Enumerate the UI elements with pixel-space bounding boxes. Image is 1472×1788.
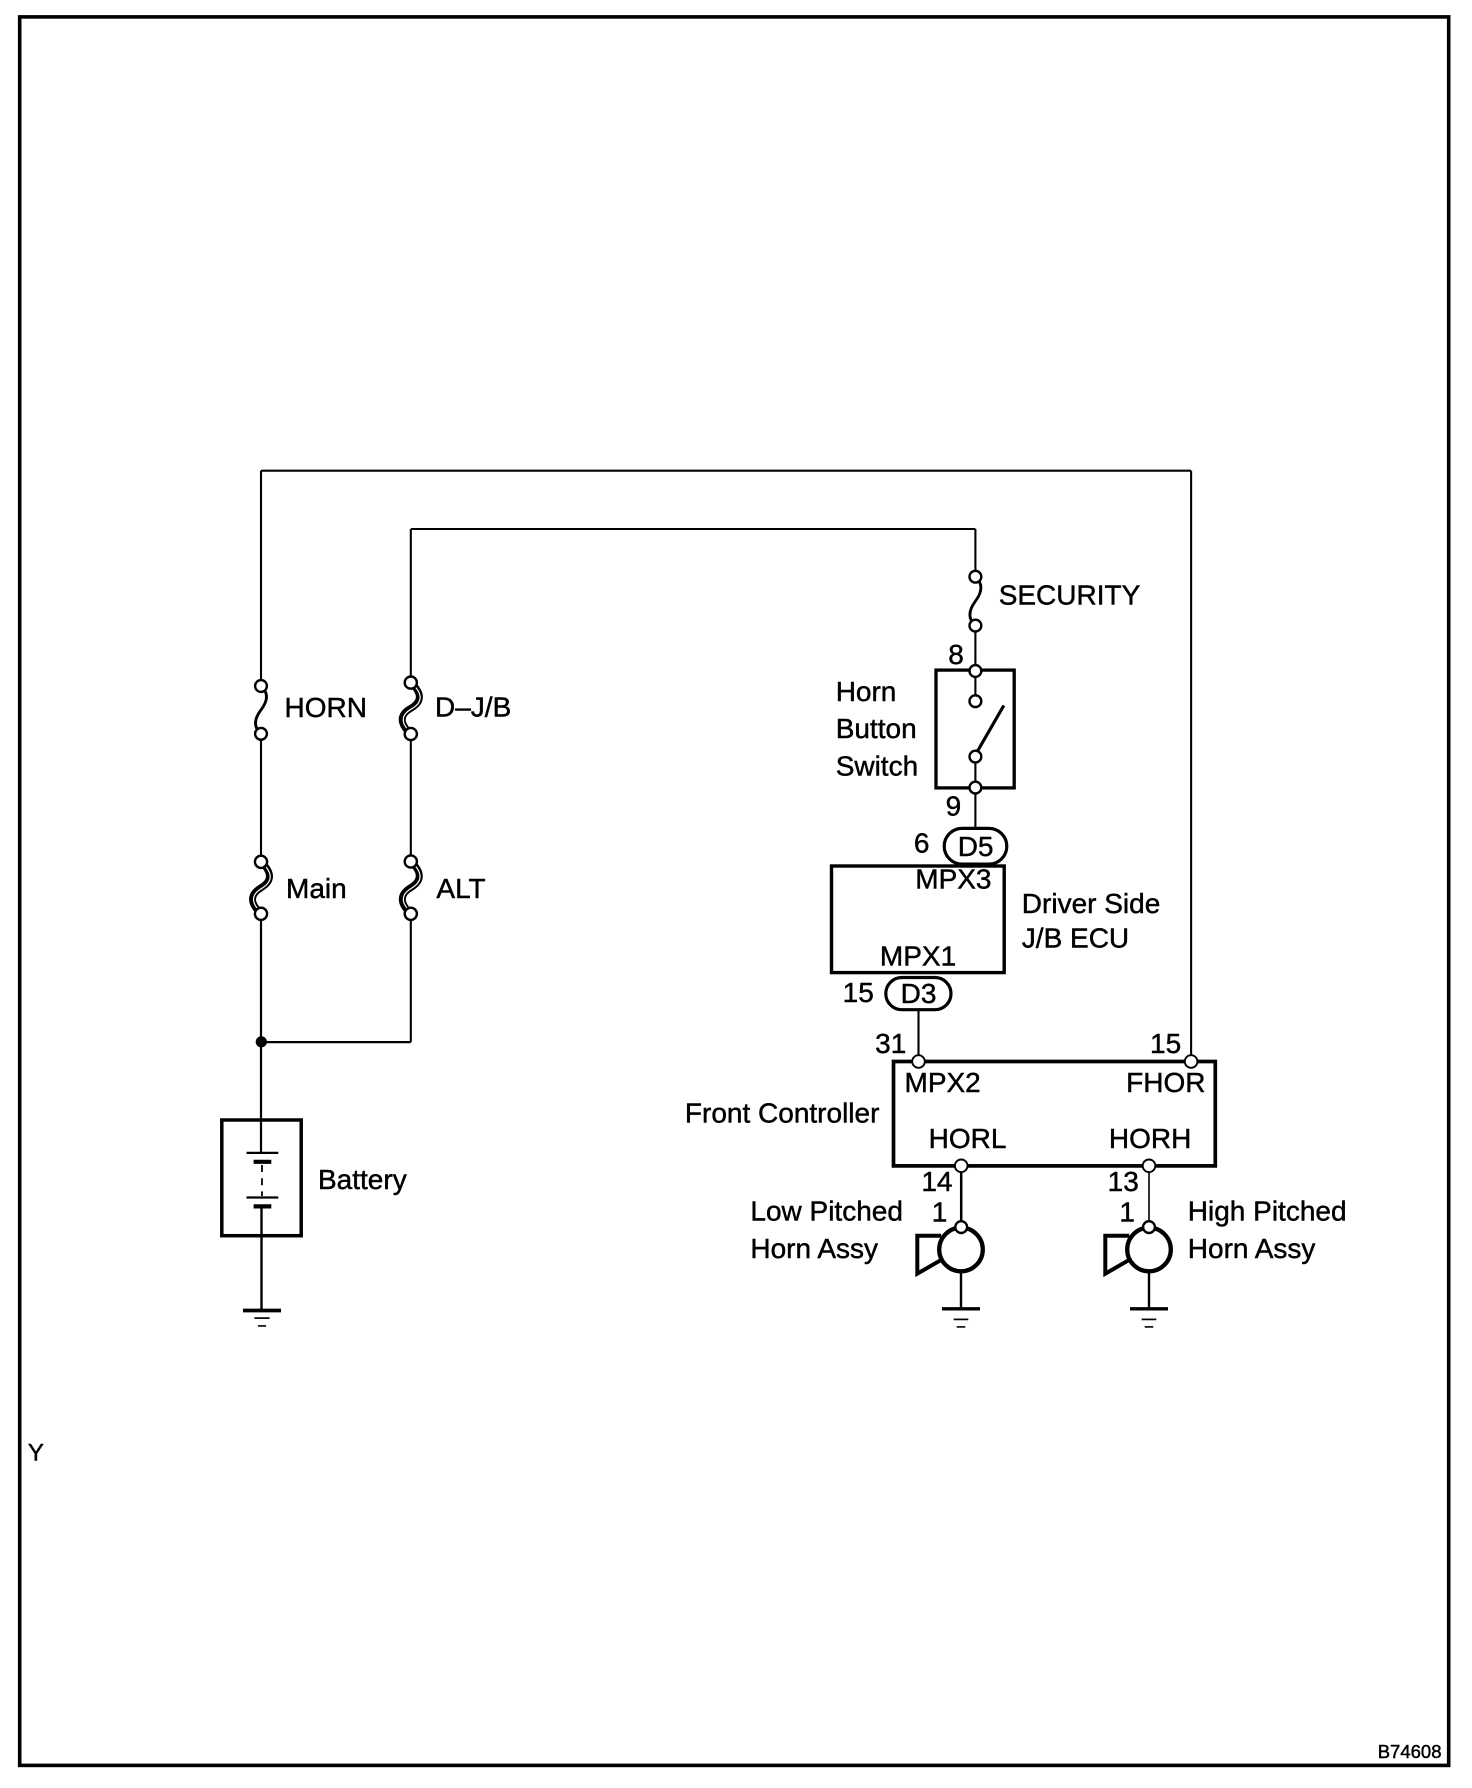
svg-text:SECURITY: SECURITY — [999, 580, 1141, 611]
svg-text:FHOR: FHOR — [1126, 1067, 1205, 1098]
wire security drop — [974, 529, 976, 577]
svg-text:Main: Main — [286, 873, 347, 904]
battery box — [222, 1120, 301, 1236]
pin 31 circle — [912, 1055, 925, 1068]
wire security to pin 8 — [974, 626, 976, 671]
svg-text:Horn Assy: Horn Assy — [1188, 1233, 1316, 1264]
wire junction branch horizontal — [261, 1041, 411, 1043]
svg-text:J/B ECU: J/B ECU — [1022, 923, 1129, 954]
svg-text:MPX3: MPX3 — [915, 864, 991, 895]
svg-text:HORH: HORH — [1109, 1123, 1191, 1154]
svg-text:6: 6 — [914, 827, 930, 858]
switch inner contact bottom — [970, 751, 982, 763]
wire second bus — [411, 528, 976, 530]
wire D3 to pin 31 — [917, 1009, 919, 1062]
wire left rail lower to battery — [260, 914, 262, 1153]
svg-text:D3: D3 — [901, 978, 937, 1009]
wire second bus riser — [410, 529, 412, 683]
Horn Button Switch box — [936, 670, 1014, 788]
svg-text:HORL: HORL — [929, 1123, 1007, 1154]
wire left rail middle — [260, 734, 262, 862]
svg-text:D5: D5 — [958, 831, 994, 862]
svg-text:1: 1 — [1119, 1196, 1135, 1227]
svg-text:31: 31 — [875, 1028, 906, 1059]
svg-text:Front Controller: Front Controller — [685, 1098, 880, 1129]
svg-text:8: 8 — [948, 639, 964, 670]
low pitched horn assy — [917, 1221, 983, 1274]
pin 14 HORL circle — [955, 1160, 968, 1173]
svg-text:Button: Button — [836, 713, 917, 744]
switch pin 9 circle — [970, 782, 982, 794]
connector D3 — [886, 978, 951, 1010]
fusible link D-J/B — [402, 677, 420, 741]
wire D-J/B to ALT — [410, 734, 412, 862]
svg-text:MPX2: MPX2 — [905, 1067, 981, 1098]
fuse HORN — [255, 680, 267, 740]
junction node — [256, 1036, 267, 1047]
svg-text:Y: Y — [28, 1440, 44, 1467]
svg-text:9: 9 — [946, 791, 962, 822]
wire pin 9 to D5 — [974, 788, 976, 830]
svg-text:B74608: B74608 — [1378, 1741, 1442, 1762]
svg-text:High Pitched: High Pitched — [1188, 1196, 1347, 1227]
Front Controller box — [894, 1062, 1216, 1166]
svg-text:ALT: ALT — [436, 873, 485, 904]
switch inner contact top — [970, 695, 982, 707]
battery ground — [243, 1311, 281, 1326]
svg-text:1: 1 — [932, 1196, 948, 1227]
wire switch pin8 to contact — [974, 671, 976, 701]
fusible link Main — [253, 856, 271, 920]
high horn ground — [1130, 1272, 1168, 1327]
svg-text:MPX1: MPX1 — [880, 940, 956, 971]
svg-text:Low Pitched: Low Pitched — [750, 1196, 903, 1227]
fuse SECURITY — [970, 571, 982, 632]
svg-text:Switch: Switch — [836, 750, 918, 781]
svg-text:Driver Side: Driver Side — [1022, 888, 1160, 919]
Driver Side J/B ECU box — [832, 866, 1005, 973]
connector D5 — [944, 828, 1007, 864]
svg-text:14: 14 — [921, 1166, 952, 1197]
svg-text:Horn Assy: Horn Assy — [750, 1233, 878, 1264]
battery symbol — [247, 1153, 279, 1311]
wire top bus — [261, 470, 1191, 472]
high pitched horn assy — [1105, 1221, 1170, 1274]
low horn ground — [942, 1272, 980, 1327]
svg-text:Battery: Battery — [318, 1164, 407, 1195]
svg-text:13: 13 — [1108, 1166, 1139, 1197]
wire switch contact to pin9 — [974, 757, 976, 788]
svg-text:15: 15 — [843, 977, 874, 1008]
switch pin 8 circle — [970, 665, 982, 677]
fusible link ALT — [402, 855, 420, 920]
svg-text:D–J/B: D–J/B — [435, 692, 511, 723]
wire HORH to high horn — [1148, 1166, 1150, 1227]
svg-text:15: 15 — [1150, 1028, 1181, 1059]
pin 13 HORH circle — [1143, 1160, 1156, 1173]
svg-text:Horn: Horn — [836, 676, 897, 707]
pin 15 FHOR circle — [1185, 1055, 1198, 1068]
wire ALT drop — [410, 914, 412, 1042]
switch blade — [977, 706, 1004, 753]
wire left rail upper — [260, 471, 262, 686]
wire HORL to low horn — [960, 1166, 963, 1227]
wire right rail — [1190, 471, 1192, 1062]
svg-text:HORN: HORN — [285, 692, 367, 723]
